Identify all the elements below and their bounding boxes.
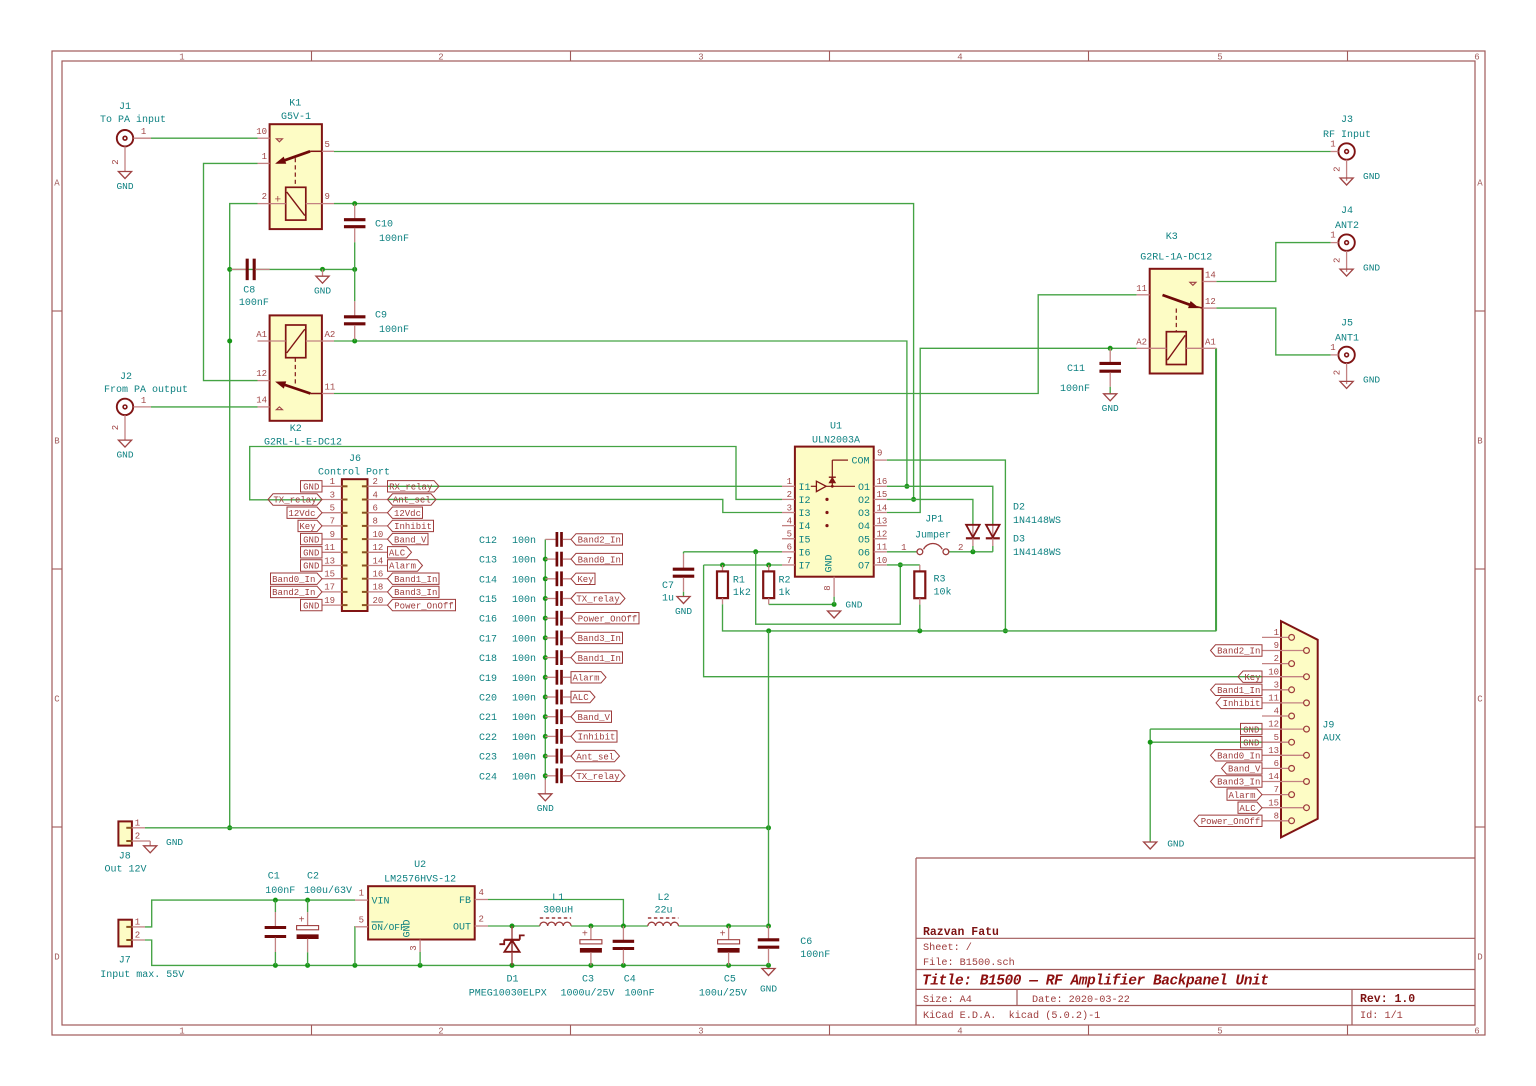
svg-text:ALC: ALC	[389, 549, 406, 559]
svg-text:100nF: 100nF	[239, 298, 269, 309]
ground of U1 pin8	[828, 600, 863, 618]
global label Band1_In at C18	[571, 652, 623, 664]
svg-text:15: 15	[877, 490, 888, 500]
svg-text:C19: C19	[479, 674, 497, 685]
svg-text:GND: GND	[403, 919, 414, 937]
svg-text:Band_V: Band_V	[578, 713, 611, 723]
svg-text:I3: I3	[799, 509, 811, 520]
wire O1 of U1 to D3	[887, 486, 993, 524]
svg-text:10: 10	[373, 530, 384, 540]
svg-text:3: 3	[698, 53, 703, 63]
global label Band0_In at J9 pin 13	[1211, 750, 1263, 762]
wire C7 to I6 of U1	[684, 549, 783, 554]
svg-text:RX_relay: RX_relay	[389, 483, 433, 493]
global label 12Vdc at J6 pin 6	[388, 507, 423, 519]
global label Power_OnOff at J6 pin 20	[388, 599, 456, 611]
svg-text:GND: GND	[166, 837, 183, 848]
svg-text:100nF: 100nF	[379, 325, 409, 336]
ground of J5	[1340, 375, 1380, 389]
svg-text:1N4148WS: 1N4148WS	[1013, 548, 1061, 559]
ground of C7	[675, 597, 692, 617]
wire C12-C24 GND bus	[543, 539, 548, 779]
capacitor C8 100nF	[232, 259, 270, 310]
global label TX_relay at J6 pin 3	[268, 494, 322, 506]
global label Power_OnOff at C16	[571, 613, 639, 625]
resistor R3 10k	[914, 565, 951, 631]
wire O2 of U1 to D2	[887, 499, 973, 524]
svg-text:R1: R1	[733, 576, 745, 587]
svg-text:J2: J2	[120, 372, 132, 383]
svg-text:TX_relay: TX_relay	[576, 772, 620, 782]
svg-text:14: 14	[256, 395, 267, 405]
svg-text:10: 10	[256, 127, 267, 137]
svg-text:C: C	[1477, 694, 1483, 704]
svg-text:C7: C7	[662, 581, 674, 592]
svg-text:Band3_In: Band3_In	[1217, 778, 1260, 788]
global label GND at J9 pin 12	[1241, 723, 1263, 735]
global label Alarm at J6 pin 14	[388, 560, 423, 572]
svg-text:5: 5	[1217, 1027, 1222, 1037]
svg-text:R2: R2	[779, 576, 791, 587]
svg-text:JP1: JP1	[925, 515, 943, 526]
wire OUT of U2 rail	[488, 924, 769, 929]
svg-text:7: 7	[330, 517, 335, 527]
wire O7 of U1 to R3	[887, 564, 920, 566]
svg-text:Band_V: Band_V	[1228, 765, 1261, 775]
global label GND at J6 pin 19	[301, 599, 323, 611]
svg-text:14: 14	[373, 556, 384, 566]
svg-text:TX_relay: TX_relay	[576, 595, 620, 605]
capacitor C22 100n	[479, 729, 571, 744]
svg-text:AUX: AUX	[1323, 733, 1341, 744]
svg-text:C10: C10	[375, 220, 393, 231]
svg-text:Band0_In: Band0_In	[272, 575, 315, 585]
global label Power_OnOff at J9 pin 8	[1194, 815, 1262, 827]
wire K1 pin9 to O2 of U1	[334, 201, 916, 502]
svg-text:Power_OnOff: Power_OnOff	[1201, 817, 1260, 827]
svg-text:11: 11	[1268, 694, 1279, 704]
svg-text:12: 12	[1205, 297, 1216, 307]
svg-text:GND: GND	[1363, 262, 1380, 273]
svg-text:I1: I1	[799, 483, 811, 494]
svg-text:C24: C24	[479, 772, 497, 783]
global label Key at J6 pin 7	[298, 520, 322, 532]
svg-text:1: 1	[141, 127, 146, 137]
svg-text:10: 10	[1268, 667, 1279, 677]
svg-text:ALC: ALC	[572, 693, 589, 703]
global label Band2_In at C12	[571, 534, 623, 546]
svg-text:I2: I2	[799, 496, 811, 507]
capacitor C18 100n	[479, 650, 571, 665]
svg-text:Alarm: Alarm	[389, 562, 416, 572]
svg-text:C12: C12	[479, 536, 497, 547]
svg-text:1: 1	[1274, 628, 1279, 638]
global label Ant_sel at J6 pin 4	[388, 494, 437, 506]
svg-text:1: 1	[262, 152, 267, 162]
capacitor C16 100n	[479, 611, 571, 626]
wire K3 pin12 to J5 pin1	[1216, 308, 1330, 355]
svg-text:9: 9	[325, 192, 330, 202]
svg-text:12: 12	[1268, 720, 1279, 730]
global label GND at J6 pin 13	[301, 560, 323, 572]
relay K1 G5V-1	[256, 98, 334, 229]
global label GND at J6 pin 9	[301, 533, 323, 545]
svg-text:Key: Key	[1244, 673, 1261, 683]
capacitor C1 100nF	[265, 872, 296, 966]
svg-text:A1: A1	[256, 330, 267, 340]
svg-text:14: 14	[1205, 271, 1216, 281]
svg-text:12: 12	[373, 543, 384, 553]
global label Band3_In at C17	[571, 632, 623, 644]
svg-text:B: B	[1477, 436, 1483, 446]
global label ALC at J6 pin 12	[388, 547, 412, 559]
global label Band2_In at J9 pin 9	[1211, 645, 1263, 657]
svg-text:1: 1	[1330, 343, 1335, 353]
svg-text:3: 3	[787, 503, 792, 513]
svg-text:2: 2	[1333, 166, 1343, 171]
global label Alarm at J9 pin 7	[1227, 789, 1262, 801]
capacitor C10 100nF	[344, 204, 409, 270]
svg-text:11: 11	[324, 543, 335, 553]
svg-text:I5: I5	[799, 535, 811, 546]
global label 12Vdc at J6 pin 5	[287, 507, 322, 519]
connector J8 Out 12V	[104, 818, 146, 875]
capacitor C17 100n	[479, 631, 571, 646]
svg-text:C23: C23	[479, 753, 497, 764]
ground of J1	[116, 172, 133, 192]
svg-text:1k: 1k	[779, 587, 791, 599]
svg-text:1N4148WS: 1N4148WS	[1013, 516, 1061, 527]
svg-text:7: 7	[787, 556, 792, 566]
svg-text:Title: B1500 — RF Amplifier Ba: Title: B1500 — RF Amplifier Backpanel Un…	[922, 974, 1269, 990]
svg-text:100n: 100n	[512, 536, 536, 547]
global label TX_relay at C24	[571, 770, 625, 782]
svg-text:2: 2	[1333, 370, 1343, 375]
svg-text:D: D	[54, 952, 59, 962]
svg-text:C16: C16	[479, 615, 497, 626]
svg-text:13: 13	[324, 556, 335, 566]
ground of C6	[760, 969, 777, 995]
svg-text:Band3_In: Band3_In	[578, 634, 621, 644]
svg-text:1: 1	[141, 396, 146, 406]
svg-text:I4: I4	[799, 522, 811, 533]
svg-text:O5: O5	[858, 535, 870, 546]
svg-text:7: 7	[1274, 785, 1279, 795]
svg-text:6: 6	[1474, 1027, 1479, 1037]
global label Inhibit at J9 pin 11	[1216, 697, 1262, 709]
svg-text:GND: GND	[303, 483, 319, 493]
svg-text:11: 11	[1136, 284, 1147, 294]
connector J2 coax From PA output	[104, 372, 188, 440]
svg-text:100n: 100n	[512, 753, 536, 764]
svg-text:GND: GND	[303, 535, 319, 545]
svg-text:K2: K2	[290, 424, 302, 435]
svg-text:1: 1	[179, 53, 184, 63]
svg-text:GND: GND	[1102, 403, 1119, 414]
wire +12V vertical K1 pin2 / C8 / K2 pinA1 / J8 rail	[227, 204, 257, 831]
svg-text:12Vdc: 12Vdc	[394, 509, 421, 519]
svg-text:11: 11	[877, 543, 888, 553]
wire Key net to J9 pin10	[704, 565, 1262, 677]
svg-text:A2: A2	[1136, 337, 1147, 347]
svg-text:C2: C2	[307, 872, 319, 883]
svg-text:Band0_In: Band0_In	[1217, 752, 1260, 762]
svg-text:1: 1	[135, 918, 140, 928]
svg-text:12Vdc: 12Vdc	[288, 509, 315, 519]
connector J7 Input max. 55V	[100, 918, 184, 981]
connector J4 coax ANT2	[1330, 206, 1359, 272]
svg-text:O1: O1	[858, 483, 870, 494]
svg-text:O2: O2	[858, 496, 870, 507]
svg-text:11: 11	[325, 383, 336, 393]
capacitor C20 100n	[479, 690, 571, 705]
svg-text:LM2576HVS-12: LM2576HVS-12	[384, 875, 456, 886]
global label Key at J9 pin 10	[1238, 671, 1262, 683]
svg-text:FB: FB	[459, 896, 471, 907]
svg-text:1u: 1u	[662, 593, 674, 604]
global label Key at C14	[571, 573, 595, 585]
svg-text:GND: GND	[116, 181, 133, 192]
svg-text:9: 9	[1274, 641, 1279, 651]
wire J7 pin1 to VIN of U2	[145, 898, 355, 927]
svg-text:GND: GND	[1243, 738, 1259, 748]
svg-text:1000u/25V: 1000u/25V	[560, 988, 614, 1000]
svg-text:O3: O3	[858, 509, 870, 520]
connector J9 AUX DB15	[1262, 621, 1341, 837]
wire J7 pin2 to GND rail	[145, 940, 771, 968]
svg-text:Ant_sel: Ant_sel	[576, 752, 614, 762]
svg-text:Alarm: Alarm	[572, 674, 599, 684]
svg-text:C21: C21	[479, 713, 497, 724]
svg-text:22u: 22u	[654, 906, 672, 917]
wire COM of U1 to +12V rail	[887, 460, 1008, 633]
svg-text:1: 1	[1330, 231, 1335, 241]
svg-text:4: 4	[479, 888, 484, 898]
svg-text:D3: D3	[1013, 534, 1025, 545]
svg-text:4: 4	[373, 490, 378, 500]
global label GND at J6 pin 1	[301, 481, 323, 493]
svg-text:C18: C18	[479, 654, 497, 665]
svg-text:Jumper: Jumper	[915, 530, 951, 541]
svg-text:J9: J9	[1322, 721, 1334, 732]
svg-text:100n: 100n	[512, 772, 536, 783]
capacitor C11 100nF	[1060, 348, 1121, 395]
svg-text:GND: GND	[314, 286, 331, 297]
svg-text:6: 6	[1274, 759, 1279, 769]
svg-text:U2: U2	[414, 860, 426, 871]
svg-text:G2RL-1A-DC12: G2RL-1A-DC12	[1140, 252, 1212, 263]
svg-text:2: 2	[479, 915, 484, 925]
global label GND at J6 pin 11	[301, 547, 323, 559]
svg-text:L1: L1	[552, 893, 564, 904]
svg-text:GND: GND	[825, 554, 836, 572]
svg-text:GND: GND	[760, 983, 777, 994]
global label Inhibit at C22	[571, 731, 617, 743]
svg-text:3: 3	[698, 1027, 703, 1037]
svg-text:C15: C15	[479, 595, 497, 606]
svg-text:L2: L2	[657, 893, 669, 904]
global label Alarm at C19	[571, 672, 606, 684]
svg-text:C13: C13	[479, 556, 497, 567]
svg-text:13: 13	[877, 516, 888, 526]
connector J1 coax To PA input	[100, 102, 166, 171]
global label TX_relay at C15	[571, 593, 625, 605]
svg-text:Key: Key	[577, 575, 594, 585]
svg-text:Power_OnOff: Power_OnOff	[578, 614, 637, 624]
svg-text:Band2_In: Band2_In	[578, 536, 621, 546]
wire O6 of U1 to JP1 pin1	[887, 551, 917, 553]
wire RX_relay J6 pin2 to I1 of U1	[388, 485, 783, 487]
inductor L2 22u	[648, 893, 679, 926]
svg-text:J4: J4	[1341, 206, 1353, 217]
svg-text:100nF: 100nF	[625, 989, 655, 1000]
svg-text:1: 1	[901, 543, 906, 553]
wire JP1 pin2 to D2 D3 cathodes	[949, 549, 993, 554]
svg-text:2: 2	[438, 1027, 443, 1037]
svg-text:2: 2	[958, 543, 963, 553]
capacitor C7 1u	[662, 552, 694, 605]
svg-text:GND: GND	[1243, 725, 1259, 735]
svg-text:6: 6	[1474, 53, 1479, 63]
svg-text:100n: 100n	[512, 634, 536, 645]
ground of J9	[1144, 839, 1185, 850]
ic U1 ULN2003A	[782, 422, 887, 605]
capacitor C14 100n	[479, 571, 571, 586]
svg-text:K1: K1	[289, 98, 301, 109]
global label RX_relay at J6 pin 2	[388, 481, 440, 493]
svg-text:Id: 1/1: Id: 1/1	[1360, 1010, 1403, 1022]
svg-text:2: 2	[1274, 654, 1279, 664]
global label Ant_sel at C23	[571, 750, 620, 762]
wire J9 GND pins	[1148, 729, 1262, 842]
wire +12V to J8 and OUT rail	[145, 825, 771, 830]
svg-text:Power_OnOff: Power_OnOff	[394, 601, 453, 611]
svg-text:J8: J8	[119, 851, 131, 862]
svg-text:100n: 100n	[512, 654, 536, 665]
capacitor C4 100nF	[613, 926, 655, 1000]
svg-text:3: 3	[409, 945, 419, 950]
svg-text:4: 4	[957, 1027, 962, 1037]
svg-text:2: 2	[135, 832, 140, 842]
svg-text:4: 4	[1274, 707, 1279, 717]
wire +12V rail under U1	[723, 349, 1216, 633]
svg-text:Ant_sel: Ant_sel	[393, 496, 431, 506]
svg-text:C8: C8	[243, 286, 255, 297]
svg-text:5: 5	[325, 140, 330, 150]
ground of C11	[1102, 394, 1119, 414]
inductor L1 300uH	[540, 893, 573, 926]
resistor R1 1k2	[717, 565, 751, 604]
svg-text:14: 14	[877, 503, 888, 513]
svg-text:D: D	[1477, 952, 1482, 962]
svg-text:Band1_In: Band1_In	[578, 654, 621, 664]
global label Band_V at J6 pin 10	[388, 533, 429, 545]
svg-text:100n: 100n	[512, 556, 536, 567]
svg-text:9: 9	[330, 530, 335, 540]
svg-text:19: 19	[324, 596, 335, 606]
svg-text:100n: 100n	[512, 733, 536, 744]
svg-text:TX_relay: TX_relay	[273, 496, 317, 506]
svg-text:A2: A2	[325, 330, 336, 340]
svg-text:ALC: ALC	[1239, 804, 1256, 814]
global label Band_V at C21	[571, 711, 612, 723]
wire U2 GND pin to rail	[419, 952, 421, 965]
svg-text:13: 13	[1268, 746, 1279, 756]
svg-text:ANT1: ANT1	[1335, 333, 1359, 344]
svg-text:GND: GND	[537, 803, 554, 814]
svg-text:U1: U1	[830, 422, 842, 433]
svg-text:Band_V: Band_V	[394, 535, 427, 545]
svg-text:I6: I6	[799, 548, 811, 559]
svg-text:16: 16	[373, 570, 384, 580]
svg-text:100n: 100n	[512, 575, 536, 586]
global label Band_V at J9 pin 6	[1222, 763, 1263, 775]
svg-text:Key: Key	[299, 522, 316, 532]
svg-text:100nF: 100nF	[379, 234, 409, 245]
svg-text:J1: J1	[119, 102, 131, 113]
svg-text:Band1_In: Band1_In	[394, 575, 437, 585]
svg-text:GND: GND	[1167, 839, 1184, 850]
capacitor C3 1000u/25V	[560, 926, 614, 1000]
svg-text:100nF: 100nF	[1060, 384, 1090, 395]
svg-text:A: A	[1477, 178, 1483, 188]
wire Ant_sel J6 pin4 to I3 of U1	[388, 499, 783, 512]
svg-text:ULN2003A: ULN2003A	[812, 435, 860, 446]
svg-text:RF Input: RF Input	[1323, 130, 1371, 141]
ground of J4	[1340, 262, 1380, 276]
svg-text:O6: O6	[858, 548, 870, 559]
svg-text:100n: 100n	[512, 713, 536, 724]
svg-text:Out 12V: Out 12V	[104, 864, 146, 875]
svg-text:8: 8	[1274, 811, 1279, 821]
svg-text:From PA output: From PA output	[104, 385, 188, 396]
svg-text:B: B	[54, 436, 60, 446]
svg-text:10: 10	[877, 556, 888, 566]
wire ON/OFF of U2 to GND	[354, 927, 356, 966]
wire K2 pinA2 row to O1 of U1	[334, 339, 909, 489]
svg-text:GND: GND	[303, 601, 319, 611]
svg-text:+: +	[299, 916, 305, 927]
svg-text:Band0_In: Band0_In	[578, 555, 621, 565]
svg-text:8: 8	[373, 517, 378, 527]
svg-text:ON/OFF: ON/OFF	[372, 922, 407, 933]
svg-text:Inhibit: Inhibit	[578, 733, 616, 743]
svg-text:Alarm: Alarm	[1228, 791, 1255, 801]
capacitor C2 100u/63V	[297, 872, 352, 966]
jumper JP1	[901, 515, 963, 555]
svg-text:1: 1	[330, 477, 335, 487]
capacitor C6 100nF	[758, 926, 831, 965]
capacitor C5 100u/25V	[699, 926, 747, 1000]
svg-text:14: 14	[1268, 772, 1279, 782]
svg-text:100nF: 100nF	[265, 886, 295, 897]
svg-text:C17: C17	[479, 634, 497, 645]
global label Band3_In at J6 pin 18	[388, 586, 440, 598]
svg-text:Input max. 55V: Input max. 55V	[100, 970, 184, 981]
svg-text:12: 12	[877, 530, 888, 540]
global label Inhibit at J6 pin 8	[388, 520, 434, 532]
global label Band2_In at J6 pin 17	[271, 586, 323, 598]
svg-text:O7: O7	[858, 562, 870, 573]
svg-text:VIN: VIN	[372, 897, 390, 908]
capacitor C24 100n	[479, 768, 571, 783]
svg-text:J6: J6	[349, 454, 361, 465]
svg-text:GND: GND	[303, 549, 319, 559]
global label ALC at C20	[571, 691, 595, 703]
svg-text:1: 1	[1330, 140, 1335, 150]
svg-text:C14: C14	[479, 575, 497, 586]
svg-text:6: 6	[787, 543, 792, 553]
